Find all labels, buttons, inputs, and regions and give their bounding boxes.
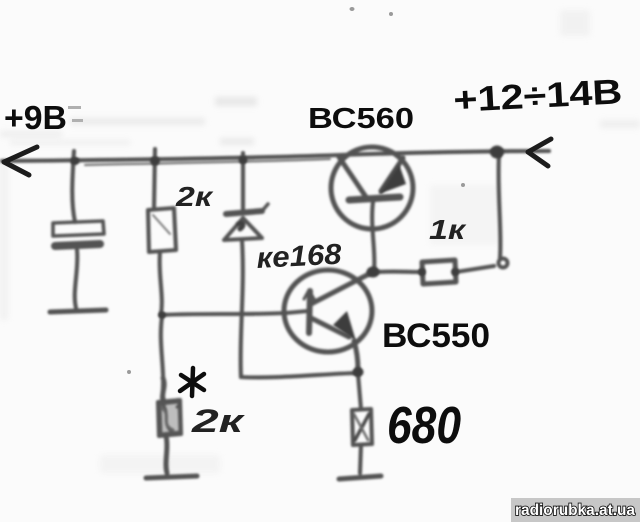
svg-text:ВС550: ВС550 — [382, 317, 490, 355]
svg-text:1к: 1к — [429, 214, 467, 245]
svg-text:+9В: +9В — [4, 99, 67, 136]
svg-text:ВС560: ВС560 — [308, 103, 414, 135]
svg-text:680: 680 — [387, 397, 461, 455]
svg-text:2к: 2к — [175, 181, 214, 212]
svg-text:radiorubka.at.ua: radiorubka.at.ua — [515, 502, 635, 519]
svg-text:ке168: ке168 — [256, 239, 343, 275]
svg-text:2к: 2к — [191, 403, 246, 439]
